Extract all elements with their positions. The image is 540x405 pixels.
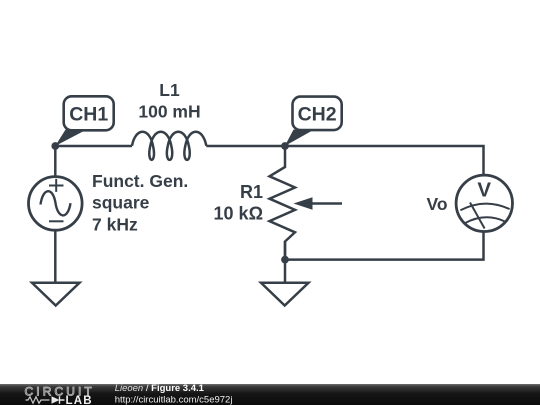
svg-text:Funct. Gen.: Funct. Gen. (92, 171, 188, 191)
V1 minus sign (49, 220, 64, 222)
inductor L1 (132, 132, 206, 160)
svg-text:CH2: CH2 (298, 104, 337, 126)
wire bottom: node B to voltmeter bottom (285, 231, 484, 260)
wire node B to ground 2 (284, 241, 287, 283)
rheostat arrow head (294, 197, 313, 209)
svg-text:CH1: CH1 (69, 103, 108, 125)
probe CH1 box (64, 96, 114, 130)
svg-text:LAB: LAB (66, 395, 93, 405)
voltage source V1 circle (29, 177, 83, 231)
node A (CH1 junction) (51, 142, 59, 150)
footer bar (0, 384, 540, 405)
wire inductor to node CH2 (206, 145, 285, 148)
voltmeter scale arc lower (465, 217, 506, 223)
svg-text:10 kΩ: 10 kΩ (214, 203, 263, 223)
svg-text:Lieoen / Figure 3.4.1: Lieoen / Figure 3.4.1 (115, 383, 205, 394)
ground 1 (under source) (32, 283, 80, 306)
svg-text:http://circuitlab.com/c5e972j: http://circuitlab.com/c5e972j (115, 394, 233, 405)
footer logo diode (52, 396, 60, 404)
svg-text:Vo: Vo (427, 194, 448, 214)
V1 sine wave (41, 191, 71, 215)
node B (bottom junction) (281, 256, 289, 264)
wire node CH2 to voltmeter top (285, 146, 484, 176)
svg-text:7 kHz: 7 kHz (92, 214, 138, 234)
probe CH2 box (293, 97, 342, 131)
probe CH2 pointer (285, 130, 314, 146)
ground 2 (under R1) (261, 283, 309, 306)
probe CH1 pointer (55, 130, 86, 146)
wire node CH1 to inductor (55, 145, 132, 148)
node CH2 junction (281, 142, 289, 150)
svg-text:V: V (477, 179, 491, 202)
wire source V1 bottom to ground (54, 231, 57, 283)
svg-text:L1: L1 (159, 80, 180, 100)
svg-text:100 mH: 100 mH (138, 102, 200, 122)
voltmeter scale arc upper (460, 204, 509, 211)
footer logo resistor squiggle (26, 397, 50, 403)
resistor R1 (rheostat zigzag) (270, 146, 296, 260)
svg-text:R1: R1 (240, 182, 263, 202)
voltmeter needle (470, 203, 485, 229)
V1 plus sign (49, 179, 64, 192)
voltmeter U1 circle (456, 175, 512, 231)
wire node CH1 down to source V1 (54, 146, 57, 177)
rheostat arrow line (310, 202, 342, 205)
svg-text:square: square (92, 193, 150, 213)
